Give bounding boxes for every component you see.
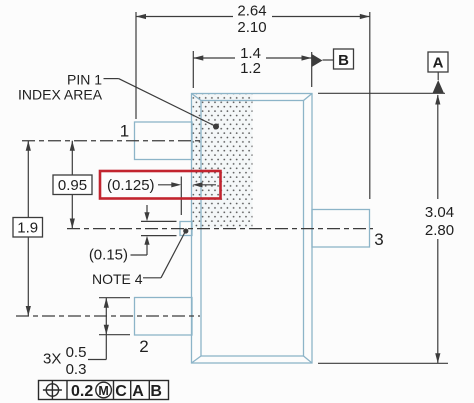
svg-text:(0.15): (0.15): [89, 246, 128, 263]
svg-text:3: 3: [374, 230, 383, 249]
svg-text:2: 2: [139, 337, 148, 356]
svg-text:0.2: 0.2: [71, 383, 93, 400]
svg-text:A: A: [132, 383, 144, 400]
svg-text:3X: 3X: [43, 351, 61, 368]
svg-text:B: B: [150, 383, 162, 400]
svg-text:C: C: [115, 383, 127, 400]
svg-text:1: 1: [120, 122, 129, 141]
svg-text:NOTE 4: NOTE 4: [92, 271, 143, 287]
svg-text:0.95: 0.95: [58, 177, 87, 194]
svg-text:3.04: 3.04: [425, 204, 454, 221]
svg-text:0.3: 0.3: [66, 361, 87, 378]
svg-text:1.9: 1.9: [17, 220, 38, 237]
svg-text:(0.125): (0.125): [107, 177, 155, 194]
svg-text:2.10: 2.10: [237, 19, 266, 36]
svg-text:1.2: 1.2: [240, 60, 261, 77]
svg-text:B: B: [338, 52, 349, 69]
svg-text:2.80: 2.80: [425, 222, 454, 239]
svg-text:M: M: [98, 384, 108, 398]
svg-text:0.5: 0.5: [66, 344, 87, 361]
svg-text:A: A: [433, 55, 444, 72]
svg-text:2.64: 2.64: [237, 3, 266, 20]
svg-text:PIN 1: PIN 1: [67, 71, 102, 87]
svg-text:INDEX AREA: INDEX AREA: [18, 87, 103, 103]
